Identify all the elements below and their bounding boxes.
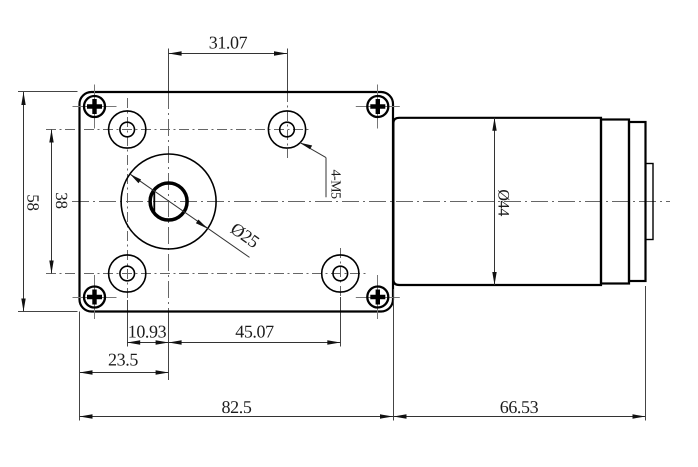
svg-text:58: 58 — [24, 194, 43, 210]
4-M5 leader — [300, 143, 342, 199]
dim 10.93 — [127, 322, 168, 345]
motor body — [393, 118, 601, 285]
screw top-left — [73, 85, 117, 129]
hole bottom-left — [109, 255, 146, 292]
dim 58 left — [18, 92, 78, 312]
extension line 10.93 left — [127, 300, 129, 347]
dim 66.53 bottom — [393, 286, 646, 421]
motor end cap — [629, 122, 646, 281]
boss circle dia 25 — [121, 154, 216, 249]
dim 82.5 bottom — [80, 289, 394, 421]
shaft circle thick — [150, 183, 187, 220]
svg-text:45.07: 45.07 — [235, 322, 274, 342]
svg-text:Ø25: Ø25 — [227, 218, 263, 252]
dim 23.5 — [80, 350, 169, 375]
horizontal main centerline — [72, 201, 670, 203]
top holes horizontal centerline — [46, 129, 310, 131]
motor ring section — [601, 120, 629, 284]
svg-text:10.93: 10.93 — [128, 322, 167, 342]
screw top-right — [356, 85, 400, 129]
svg-text:82.5: 82.5 — [222, 397, 252, 417]
dim 38 left — [49, 130, 71, 274]
svg-text:Ø44: Ø44 — [495, 189, 512, 216]
top-right hole vertical centerline — [287, 49, 289, 159]
svg-text:23.5: 23.5 — [108, 350, 138, 370]
dim dia44 motor — [492, 118, 511, 285]
svg-text:4-M5: 4-M5 — [328, 169, 343, 199]
shaft flat chord — [153, 188, 155, 214]
left holes vertical centerline — [127, 98, 129, 300]
bottom holes horizontal centerline — [46, 273, 368, 275]
bottom-right hole vertical centerline — [340, 248, 342, 347]
vertical main centerline — [168, 49, 170, 381]
gearbox plate outline — [80, 92, 394, 312]
svg-text:31.07: 31.07 — [209, 33, 248, 53]
screw bottom-left — [73, 275, 117, 319]
svg-text:66.53: 66.53 — [500, 397, 539, 417]
dim 45.07 — [169, 322, 341, 345]
motor terminal protrusion — [646, 164, 654, 240]
dia25 dimension leader — [130, 174, 263, 257]
dim 31.07 top — [169, 33, 287, 56]
hole bottom-right — [322, 255, 359, 292]
hole top-right 4-M5 — [268, 111, 305, 148]
dim 10.93 / 45.07 line — [127, 342, 340, 344]
svg-text:38: 38 — [52, 192, 71, 208]
hole top-left — [109, 111, 146, 148]
screw bottom-right — [356, 275, 400, 319]
